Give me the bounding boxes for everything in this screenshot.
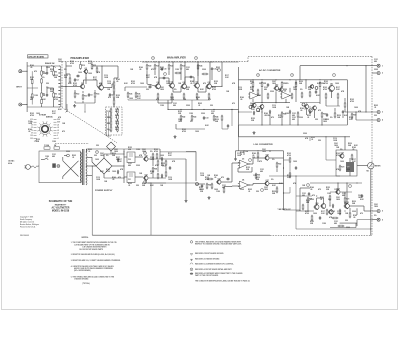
svg-text:C121: C121 <box>260 169 264 171</box>
capacitor C4 <box>74 78 79 82</box>
svg-text:300V: 300V <box>57 122 60 124</box>
svg-text:R205: R205 <box>88 149 92 151</box>
svg-text:R230: R230 <box>112 153 116 155</box>
svg-text:R117: R117 <box>52 111 56 113</box>
title schematic of the <box>49 200 73 203</box>
rotary switch wiper label <box>33 140 37 143</box>
svg-text:R230: R230 <box>50 89 54 91</box>
transformer secondary <box>86 149 87 185</box>
wire preamp out top <box>112 84 114 88</box>
resistor R11 <box>91 63 96 70</box>
wire secondary taps <box>86 149 111 176</box>
svg-text:1000: 1000 <box>140 83 144 85</box>
capacitor C32 <box>169 166 171 170</box>
svg-text:R152: R152 <box>161 163 165 165</box>
svg-text:470: 470 <box>221 176 224 179</box>
svg-text:R117: R117 <box>118 159 122 161</box>
svg-text:U3: U3 <box>242 158 244 160</box>
capacitor C24 <box>319 216 321 220</box>
wire log top feed <box>234 151 236 161</box>
svg-text:R152: R152 <box>278 115 282 117</box>
transistor Q21 <box>320 203 326 209</box>
svg-text:680: 680 <box>30 99 33 101</box>
resistor R36 <box>135 92 140 99</box>
capacitor C11 <box>211 67 217 71</box>
svg-text:C110: C110 <box>250 103 254 105</box>
svg-text:RANGE SW.: RANGE SW. <box>45 62 55 65</box>
svg-text:.01: .01 <box>307 117 309 119</box>
svg-text:1000: 1000 <box>129 98 133 100</box>
terminal output 1 <box>372 64 383 67</box>
resistor R44 <box>213 115 218 122</box>
svg-text:C201: C201 <box>115 121 119 123</box>
wire acdc v2 <box>262 109 322 126</box>
resistor R83 <box>157 173 159 180</box>
wire q7 collector <box>197 61 198 83</box>
wire main emitter rail <box>128 99 210 109</box>
svg-text:470: 470 <box>62 130 65 133</box>
svg-text:R117: R117 <box>93 77 97 79</box>
resistor R12 <box>74 92 79 99</box>
resistor R66 <box>207 178 214 180</box>
svg-text:220: 220 <box>146 89 149 91</box>
svg-text:470: 470 <box>312 194 315 197</box>
transformer core <box>83 149 84 185</box>
svg-text:R117: R117 <box>88 61 92 63</box>
zener D11 <box>161 174 163 178</box>
wire preamp misc <box>66 62 97 104</box>
notes right column symbols <box>190 241 193 275</box>
wire driver h <box>296 192 352 197</box>
resistor R55 <box>281 112 286 119</box>
svg-text:C110: C110 <box>272 105 276 107</box>
resistor R4 <box>41 98 43 105</box>
svg-text:1000: 1000 <box>36 113 40 115</box>
svg-text:R117: R117 <box>146 75 150 77</box>
resistor R41 <box>208 93 210 100</box>
svg-text:220: 220 <box>345 220 348 222</box>
svg-text:3300: 3300 <box>107 117 111 119</box>
resistor R65 <box>211 183 213 190</box>
svg-text:1.5M: 1.5M <box>327 193 331 195</box>
svg-text:R152: R152 <box>178 111 182 113</box>
wire driver rails <box>296 188 314 211</box>
svg-text:470: 470 <box>360 212 363 215</box>
capacitor C1 <box>31 71 33 104</box>
wire ps out minus <box>135 177 196 183</box>
resistor R50 <box>252 81 254 88</box>
resistor R69 <box>223 187 225 194</box>
transistor Q19 <box>339 152 344 158</box>
svg-text:C201: C201 <box>100 153 104 155</box>
svg-text:AC-DC CONVERTER: AC-DC CONVERTER <box>259 69 281 72</box>
svg-text:C110: C110 <box>333 138 337 140</box>
bridge rectifier D9 <box>107 142 116 154</box>
diode D13 <box>117 158 119 174</box>
label range switch rear <box>39 114 53 119</box>
svg-text:3300: 3300 <box>186 105 190 107</box>
svg-text:.01: .01 <box>311 139 313 141</box>
resistor R74 <box>349 212 351 219</box>
svg-text:C201: C201 <box>323 119 327 121</box>
svg-text:R205: R205 <box>320 197 324 199</box>
svg-text:C110: C110 <box>337 211 341 213</box>
svg-text:680: 680 <box>128 165 131 167</box>
svg-text:Q5: Q5 <box>171 82 173 84</box>
resistor R3 <box>41 84 46 98</box>
svg-text:.01: .01 <box>216 69 218 71</box>
svg-text:C201: C201 <box>178 119 182 121</box>
svg-text:R102: R102 <box>54 97 58 99</box>
svg-text:.01: .01 <box>128 185 130 187</box>
svg-text:-30: -30 <box>57 127 59 129</box>
svg-text:470: 470 <box>108 96 111 99</box>
svg-text:220: 220 <box>210 105 213 107</box>
transistor Q10 <box>274 85 279 91</box>
label 120VAC <box>8 160 15 165</box>
svg-text:R230: R230 <box>64 75 68 77</box>
power cord <box>32 166 39 168</box>
resistor R53 <box>295 81 297 88</box>
resistor R63 <box>276 187 278 194</box>
svg-text:680: 680 <box>260 171 263 173</box>
wire acdc out <box>300 65 372 112</box>
svg-text:Q31: Q31 <box>145 174 148 176</box>
capacitor C12 <box>148 84 152 88</box>
svg-text:1000: 1000 <box>88 73 92 75</box>
svg-text:R117: R117 <box>137 96 141 98</box>
wire log fb <box>238 167 252 172</box>
svg-text:AC VOLTMETER: AC VOLTMETER <box>52 207 70 210</box>
svg-text:R117: R117 <box>349 117 353 119</box>
svg-text:R205: R205 <box>311 137 315 139</box>
svg-text:C201: C201 <box>293 87 297 89</box>
svg-text:220: 220 <box>328 199 331 201</box>
wire q5-q6 <box>173 87 181 92</box>
svg-text:METER: METER <box>375 165 381 167</box>
wire preamp top feed <box>66 65 72 67</box>
svg-text:SCHEMATIC OF THE: SCHEMATIC OF THE <box>49 200 73 203</box>
wire ladder top <box>114 66 118 81</box>
transistor Q12 <box>249 103 256 109</box>
wire ladder join <box>111 104 114 114</box>
transistor Q10b <box>279 87 284 92</box>
label see note <box>278 208 291 211</box>
svg-text:R205: R205 <box>307 115 311 117</box>
transistor Q24 <box>328 209 333 215</box>
svg-text:1.5M: 1.5M <box>45 156 49 158</box>
resistor R70b <box>351 154 353 161</box>
neon NE1 <box>64 154 69 157</box>
svg-text:C110: C110 <box>170 97 174 99</box>
label PREAMPLIFIER <box>71 57 90 60</box>
svg-text:C110: C110 <box>238 87 242 89</box>
resistor R40 <box>196 93 198 100</box>
wire q3 down <box>85 73 86 84</box>
svg-text:C201: C201 <box>262 149 266 151</box>
resistor R15 <box>69 77 71 84</box>
transistor Q18 <box>216 178 221 184</box>
switch S2 <box>41 158 48 160</box>
svg-text:C121: C121 <box>264 87 268 89</box>
svg-text:R102: R102 <box>73 83 77 85</box>
svg-text:.01: .01 <box>320 199 322 201</box>
svg-text:C110: C110 <box>150 157 154 159</box>
svg-text:C201: C201 <box>374 204 378 206</box>
wire log in3 <box>224 185 241 188</box>
resistor R79 <box>338 225 345 227</box>
svg-text:C10: C10 <box>164 69 167 71</box>
wire driver top <box>269 175 371 229</box>
resistor R47 <box>221 115 223 122</box>
resistor R37 <box>157 93 159 100</box>
wire log right2 <box>284 160 291 193</box>
transistor Q3 current source <box>83 68 88 74</box>
svg-text:1800: 1800 <box>323 121 327 123</box>
svg-text:C121: C121 <box>186 67 190 69</box>
resistor R72 <box>329 195 331 202</box>
capacitor C26 <box>308 192 310 196</box>
capacitor C30 <box>124 152 135 163</box>
resistor R67 <box>289 157 291 164</box>
svg-text:R152: R152 <box>250 87 254 89</box>
svg-text:1.5M: 1.5M <box>189 113 193 115</box>
capacitor C5 <box>88 93 93 97</box>
wire acdc left rail <box>239 67 294 151</box>
resistor R55b <box>325 93 327 100</box>
wire supply rail right <box>160 151 196 153</box>
wire meter down <box>370 169 371 236</box>
op-amp U3 <box>238 158 250 168</box>
svg-text:.05: .05 <box>352 149 354 151</box>
rotary switch right contacts <box>54 119 61 140</box>
svg-text:1.5M: 1.5M <box>136 149 140 151</box>
svg-text:R5: R5 <box>55 71 57 73</box>
resistor R14 <box>94 92 99 99</box>
diode D3 <box>253 111 255 115</box>
svg-text:.05: .05 <box>190 83 192 85</box>
wire ps plus rail <box>112 165 124 167</box>
svg-text:R152: R152 <box>128 147 132 149</box>
capacitor C25 <box>295 166 297 170</box>
svg-text:R230: R230 <box>299 81 303 83</box>
svg-text:3V: 3V <box>31 133 33 135</box>
wire log top rail <box>236 150 284 151</box>
capacitor C14 <box>162 77 166 79</box>
svg-text:3: 3 <box>382 112 383 114</box>
svg-text:R230: R230 <box>115 127 119 129</box>
svg-text:1.5M: 1.5M <box>257 95 261 97</box>
svg-text:C110: C110 <box>96 177 100 179</box>
wire vert x151 <box>150 183 152 235</box>
transistor Q11 <box>328 84 335 92</box>
capacitor C23 <box>361 194 363 198</box>
svg-text:R152: R152 <box>200 189 204 191</box>
transistor Q31 regulator <box>143 174 148 180</box>
wire preamp emitters <box>75 91 95 103</box>
svg-text:5: 5 <box>382 211 383 213</box>
transistor Q4 <box>155 81 161 89</box>
svg-text:R152: R152 <box>116 95 120 97</box>
svg-text:C30: C30 <box>128 159 131 161</box>
capacitor C13 <box>203 116 209 120</box>
svg-text:Q11: Q11 <box>330 84 333 86</box>
svg-text:.05: .05 <box>112 179 114 181</box>
wire driver out <box>349 206 372 226</box>
svg-text:R152: R152 <box>246 167 250 169</box>
wire q2 collector up <box>92 65 118 85</box>
resistor R60 <box>257 152 259 159</box>
wire attenuator taps <box>42 98 59 107</box>
svg-text:1: 1 <box>382 65 383 67</box>
svg-text:R205: R205 <box>216 67 220 69</box>
resistor R81 <box>152 167 157 174</box>
svg-text:C201: C201 <box>58 59 62 61</box>
svg-text:R30: R30 <box>148 65 151 67</box>
svg-text:.3V: .3V <box>31 127 33 129</box>
resistor R52 <box>281 81 286 88</box>
svg-text:680: 680 <box>52 156 55 158</box>
transistor Q11b <box>309 84 318 89</box>
wire q5 collector <box>172 61 173 83</box>
svg-text:220: 220 <box>256 191 259 193</box>
svg-text:R152: R152 <box>30 77 34 79</box>
svg-text:1000: 1000 <box>293 161 297 163</box>
wire log right rail <box>283 151 284 210</box>
svg-text:CIRCUIT BOARD: CIRCUIT BOARD <box>28 56 45 59</box>
resistor R51 <box>261 81 266 88</box>
rotary switch S1 wafer <box>37 121 52 136</box>
svg-text:220: 220 <box>259 83 262 85</box>
svg-text:C110: C110 <box>346 167 350 169</box>
svg-text:R230: R230 <box>215 119 219 121</box>
resistor R68 <box>289 172 291 179</box>
svg-text:C121: C121 <box>374 59 378 61</box>
capacitor C16 <box>227 124 229 128</box>
svg-text:1.5M: 1.5M <box>285 113 289 115</box>
svg-text:3300: 3300 <box>346 227 350 229</box>
svg-text:1800: 1800 <box>142 151 146 153</box>
svg-text:C121: C121 <box>211 111 215 113</box>
terminal output 5 <box>372 210 383 213</box>
svg-text:LOG CONVERTER: LOG CONVERTER <box>254 144 274 146</box>
svg-text:C121: C121 <box>173 103 177 105</box>
svg-text:3300: 3300 <box>201 113 205 115</box>
svg-text:-20: -20 <box>57 130 59 132</box>
thermal block <box>52 163 56 167</box>
svg-text:R230: R230 <box>272 191 276 193</box>
wire log conn meter <box>284 210 301 211</box>
wire ps rails <box>104 152 125 183</box>
part number <box>20 235 29 237</box>
resistor R86 <box>156 153 158 160</box>
wire feedback vertical <box>158 99 172 109</box>
svg-text:3300: 3300 <box>202 69 206 71</box>
svg-text:R152: R152 <box>214 81 218 83</box>
resistor R50b <box>257 89 259 96</box>
svg-text:470: 470 <box>318 188 321 191</box>
svg-text:R62: R62 <box>278 163 281 165</box>
resistor R62 <box>276 162 281 169</box>
svg-text:100V: 100V <box>57 119 60 121</box>
zener block VR1 <box>346 158 354 176</box>
svg-text:.05: .05 <box>240 99 242 101</box>
svg-text:.05: .05 <box>214 177 216 179</box>
transformer primary <box>81 152 82 183</box>
resistor R43 <box>191 115 196 122</box>
zener D10 <box>161 157 163 161</box>
title model line1 <box>52 207 70 210</box>
svg-text:1000: 1000 <box>160 155 164 157</box>
svg-text:C121: C121 <box>30 97 34 99</box>
op-amp U2 <box>280 90 291 99</box>
wire q1 base <box>66 86 80 88</box>
resistor R39 <box>183 93 185 100</box>
svg-text:1000: 1000 <box>335 83 339 85</box>
svg-text:R205: R205 <box>374 105 378 107</box>
resistor R70 <box>339 165 344 172</box>
circuit board label box <box>28 55 49 59</box>
wire q4 collector <box>158 61 159 84</box>
capacitor C27 <box>226 178 230 180</box>
wire mid terminals feed <box>345 111 377 120</box>
svg-text:680: 680 <box>173 105 176 107</box>
meter M1 <box>367 162 382 172</box>
svg-text:R205: R205 <box>198 103 202 105</box>
svg-text:C201: C201 <box>358 195 362 197</box>
terminal output 2 <box>372 72 383 75</box>
ground preamp <box>73 104 76 107</box>
svg-text:470: 470 <box>155 164 158 167</box>
svg-text:R152: R152 <box>36 139 40 141</box>
svg-text:3300: 3300 <box>270 91 274 93</box>
resistor R54b <box>309 91 311 98</box>
svg-text:.05: .05 <box>139 69 141 71</box>
svg-text:Q3: Q3 <box>85 68 87 70</box>
svg-text:1800: 1800 <box>336 199 340 201</box>
wire input bus <box>27 62 41 112</box>
svg-text:R81: R81 <box>154 168 157 170</box>
resistor R46 <box>202 73 209 75</box>
svg-text:3300: 3300 <box>310 199 314 201</box>
transistor Q8 <box>206 82 212 89</box>
svg-text:R152: R152 <box>326 187 330 189</box>
svg-text:R6: R6 <box>55 93 57 95</box>
svg-text:.05: .05 <box>252 155 254 157</box>
svg-text:R3: R3 <box>43 93 45 95</box>
capacitor C31 <box>124 172 135 183</box>
resistor R71 <box>307 197 312 204</box>
svg-text:680: 680 <box>264 89 267 91</box>
svg-text:R102: R102 <box>305 211 309 213</box>
svg-text:C201: C201 <box>142 149 146 151</box>
capacitor C7 <box>76 75 80 77</box>
svg-text:.01: .01 <box>331 213 333 215</box>
wire ps center tap down <box>92 165 93 235</box>
ground supply <box>185 199 188 202</box>
svg-text:1.5M: 1.5M <box>160 105 164 107</box>
svg-text:R117: R117 <box>336 87 340 89</box>
svg-text:Q8: Q8 <box>208 82 210 84</box>
svg-text:R205: R205 <box>115 115 119 117</box>
svg-text:C121: C121 <box>302 193 306 195</box>
svg-text:C121: C121 <box>292 113 296 115</box>
svg-text:R102: R102 <box>324 81 328 83</box>
bridge rectifier D5-D8 <box>92 154 112 178</box>
ground acdc <box>253 131 256 134</box>
svg-text:1000: 1000 <box>195 131 199 133</box>
resistor R34 <box>197 64 202 71</box>
